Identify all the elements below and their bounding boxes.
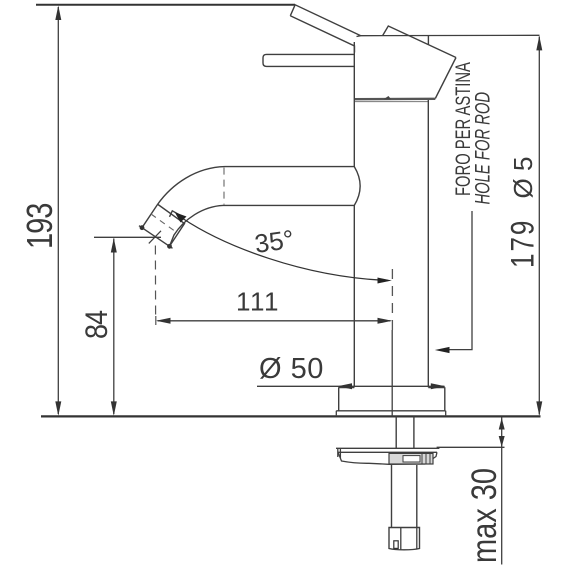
washer nut inner face bbox=[403, 456, 420, 462]
dimension 84 line bbox=[113, 239, 115, 415]
spout tip dot D bbox=[167, 244, 172, 249]
tip inner dashed line bbox=[151, 214, 176, 232]
shank below deck bbox=[396, 416, 414, 448]
nut facets bbox=[401, 528, 417, 550]
dashed centerline at body axis bbox=[391, 269, 393, 330]
head bottom groove bbox=[354, 98, 435, 101]
groove flag triangle bbox=[384, 96, 392, 99]
head top edge + 179 extension line bbox=[357, 35, 540, 36]
head right edge tick bbox=[427, 35, 429, 45]
dia50 arrow right bbox=[431, 383, 446, 389]
svg-text:HOLE FOR ROD: HOLE FOR ROD bbox=[470, 92, 494, 205]
spout tip face line bbox=[139, 226, 173, 249]
threaded rod bbox=[392, 465, 417, 528]
max30 arrow down bbox=[499, 436, 505, 447]
dimension 111 line bbox=[158, 320, 391, 322]
max30 arrow up bbox=[499, 418, 505, 430]
svg-text:35°: 35° bbox=[253, 224, 296, 259]
max30 extension line bbox=[437, 446, 505, 448]
svg-text:Ø 5: Ø 5 bbox=[508, 157, 538, 199]
tip bracket mark bbox=[170, 211, 182, 217]
lever handle grip bbox=[290, 5, 361, 53]
svg-text:Ø 50: Ø 50 bbox=[259, 353, 324, 385]
solid centerline through flange bbox=[391, 330, 393, 416]
flange base plate bbox=[336, 411, 445, 416]
111 arrow left bbox=[156, 318, 171, 324]
flange outline bbox=[339, 387, 445, 410]
rod nut bbox=[389, 528, 420, 550]
dashed extension below tip to 111 line bbox=[154, 246, 156, 327]
nut slot bbox=[394, 541, 398, 549]
washer dish outline bbox=[338, 452, 437, 464]
dimension 193 arrow bottom bbox=[55, 401, 61, 416]
leader line for rod hole bbox=[448, 211, 472, 350]
leader arrowhead bbox=[435, 347, 450, 353]
svg-text:max 30: max 30 bbox=[464, 468, 503, 563]
extension line for 84 at spout tip level bbox=[94, 236, 161, 238]
spout tip dot A bbox=[140, 225, 145, 230]
body left edge with spout bulge bbox=[354, 42, 360, 387]
body right edge bbox=[427, 100, 429, 387]
svg-text:193: 193 bbox=[19, 204, 60, 249]
dimension 179 line bbox=[538, 37, 540, 415]
dimension 84 arrow bottom bbox=[111, 401, 117, 416]
spout lower outline bbox=[170, 205, 355, 246]
max30 dimension line bbox=[501, 418, 503, 565]
spout bend tangent dashed line bbox=[223, 168, 225, 205]
179 arrow top bbox=[536, 36, 542, 51]
svg-text:111: 111 bbox=[236, 287, 280, 317]
dimension diameter 50 line bbox=[257, 385, 445, 387]
deck / countertop line bbox=[41, 415, 541, 417]
dimension 84 arrow top bbox=[111, 238, 117, 253]
svg-text:84: 84 bbox=[80, 310, 114, 339]
dia50 arrow left bbox=[338, 383, 353, 389]
tip square outline bbox=[158, 205, 185, 247]
lever closed-position bar bbox=[263, 54, 354, 66]
35 arc arrowhead right bbox=[378, 278, 392, 284]
spout upper outline bbox=[142, 167, 354, 228]
111 arrow right bbox=[378, 318, 393, 324]
head right slant edge bbox=[435, 58, 456, 99]
dimension 193 line bbox=[57, 7, 59, 414]
washer top plate bbox=[336, 448, 439, 458]
svg-text:179: 179 bbox=[505, 219, 542, 268]
179 arrow bottom bbox=[536, 401, 542, 416]
top reference line bbox=[36, 4, 295, 6]
lever paddle slanted edge bbox=[383, 26, 456, 58]
35 arc arrowhead at tip bbox=[175, 212, 187, 222]
35 degree arc bbox=[182, 218, 388, 281]
washer nut slots bbox=[422, 454, 430, 464]
dimension 193 arrow top bbox=[55, 6, 61, 21]
axis tick through 84 crossing bbox=[149, 231, 161, 244]
washer nut block bbox=[389, 453, 433, 464]
